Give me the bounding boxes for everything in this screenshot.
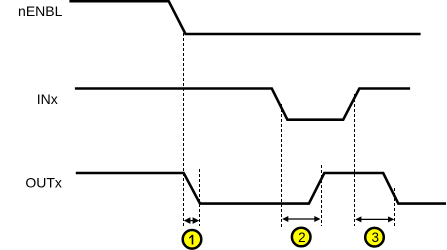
svg-text:INx: INx [37, 91, 58, 107]
svg-text:OUTx: OUTx [25, 174, 62, 190]
svg-text:nENBL: nENBL [18, 3, 63, 19]
svg-text:3: 3 [371, 230, 379, 245]
svg-text:2: 2 [298, 230, 306, 245]
